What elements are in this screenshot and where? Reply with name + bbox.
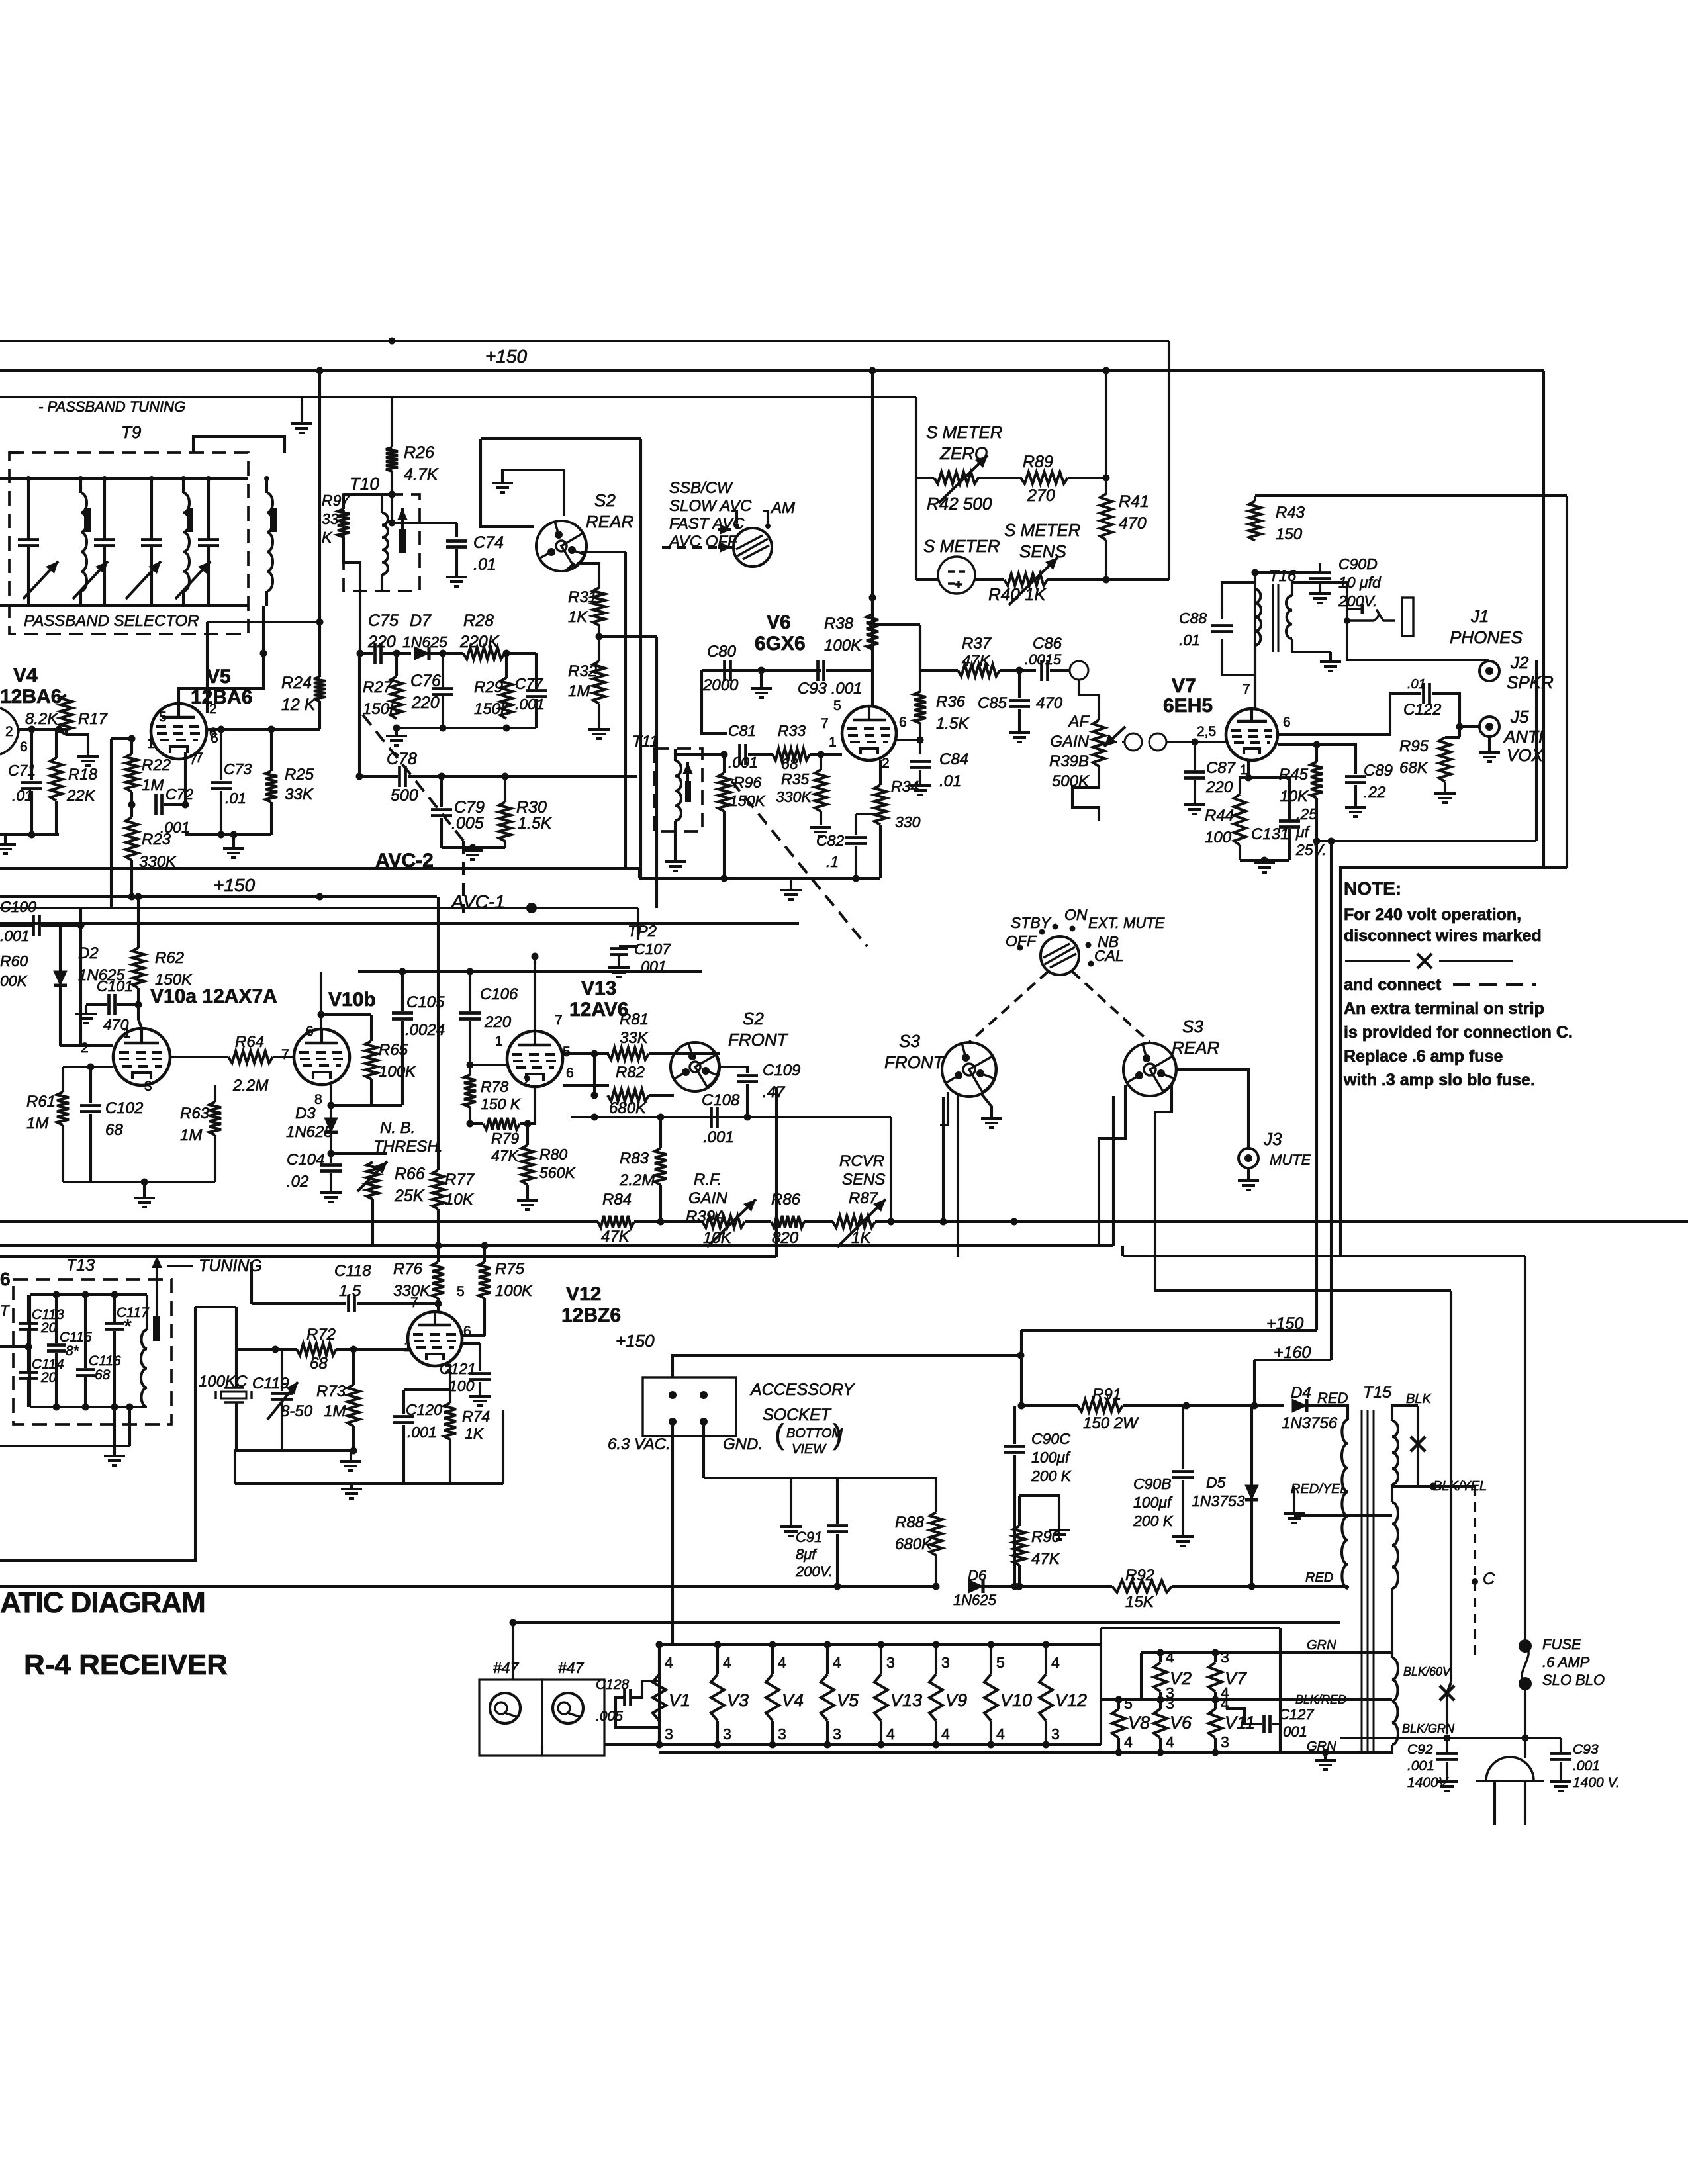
ground T16 <box>1320 662 1341 671</box>
shield box T13 <box>13 1279 171 1424</box>
capacitor C80 <box>725 660 731 681</box>
wire <box>674 1052 720 1055</box>
svg-text:R41: R41 <box>1119 492 1149 511</box>
wire long bus 1882 <box>0 1244 1113 1247</box>
ground R73 <box>340 1461 361 1471</box>
wire <box>59 923 62 971</box>
ground below R32 <box>588 729 610 739</box>
wire <box>1194 780 1196 803</box>
wire heater V13 top <box>880 1645 882 1674</box>
svg-text:150 2W: 150 2W <box>1083 1414 1139 1432</box>
wire AVC to V5 grid <box>111 737 132 740</box>
svg-text:R42 500: R42 500 <box>927 494 992 514</box>
ground below C79 <box>462 850 483 860</box>
wire GRN bottom row <box>659 1751 1340 1754</box>
dashed link to S3 front <box>969 972 1048 1042</box>
svg-text:220: 220 <box>484 1013 512 1031</box>
wire <box>1123 1255 1525 1257</box>
svg-text:R83: R83 <box>620 1150 649 1167</box>
wire <box>336 1348 410 1351</box>
wire <box>128 1407 131 1446</box>
junction <box>869 594 876 602</box>
svg-text:560K: 560K <box>539 1164 576 1181</box>
tube V13 12AV6 <box>507 1031 563 1087</box>
resistor R31 <box>593 588 605 625</box>
junction <box>1313 741 1321 749</box>
resistor R88 <box>930 1512 942 1555</box>
wire S2 contact right <box>581 551 626 553</box>
svg-text:6: 6 <box>306 1024 314 1039</box>
wire right side of S-meter box <box>1168 341 1170 580</box>
resistor R44 <box>1234 794 1246 845</box>
dashed wire to AVC switch <box>662 546 733 549</box>
svg-text:and connect: and connect <box>1344 976 1442 994</box>
wire V13 pin5 <box>570 1052 609 1055</box>
resistor R29 <box>500 678 512 719</box>
svg-text:C85: C85 <box>978 694 1008 712</box>
wire <box>236 1348 297 1351</box>
svg-text:R-4 RECEIVER: R-4 RECEIVER <box>24 1649 228 1681</box>
fuse F1 <box>1519 1639 1532 1653</box>
svg-text:68: 68 <box>310 1355 328 1373</box>
ground V7 cathode <box>1254 863 1275 872</box>
wire heater V1 top <box>658 1645 661 1674</box>
wire to V10a grid <box>138 1005 142 1028</box>
junction <box>218 726 225 733</box>
svg-text:N. B.: N. B. <box>380 1119 415 1137</box>
ground below R27 <box>386 736 407 745</box>
junction <box>591 1050 598 1058</box>
wire <box>0 924 32 927</box>
junction <box>1103 576 1110 584</box>
wire <box>890 1117 892 1222</box>
svg-text:.001: .001 <box>1407 1758 1434 1774</box>
wire input <box>0 1345 28 1348</box>
svg-text:00K: 00K <box>0 972 28 989</box>
dashed divider vertical <box>462 841 465 913</box>
terminal circle <box>1070 661 1088 680</box>
connection X mark <box>1411 1437 1425 1451</box>
wire <box>820 811 822 825</box>
svg-text:3: 3 <box>1166 1695 1174 1712</box>
svg-text:C73: C73 <box>224 760 252 778</box>
capacitor C107 <box>610 949 628 955</box>
wire to R26 <box>391 397 393 447</box>
wire <box>856 813 880 815</box>
svg-text:S2: S2 <box>594 490 616 510</box>
svg-text:SENS: SENS <box>842 1171 885 1189</box>
wire R24 bottom <box>318 701 321 729</box>
wire <box>659 1117 662 1148</box>
wire <box>359 775 398 778</box>
wire <box>442 653 444 688</box>
junction C87 tap <box>1192 739 1199 746</box>
ground near T9 <box>291 424 312 433</box>
wire <box>55 1353 58 1407</box>
wire <box>232 835 235 848</box>
svg-text:EXT. MUTE: EXT. MUTE <box>1088 915 1165 931</box>
shield box T10 <box>344 494 420 591</box>
svg-text:4: 4 <box>665 1654 673 1671</box>
svg-text:47K: 47K <box>601 1228 630 1246</box>
resistor R36 <box>914 692 926 723</box>
ground C104 <box>320 1193 342 1202</box>
ground R35 <box>810 827 831 837</box>
capacitor C82 <box>845 838 867 844</box>
wire GRN top <box>1340 1653 1392 1658</box>
junction <box>510 1619 517 1627</box>
wire V10b plate <box>320 972 322 1030</box>
wire <box>919 625 921 670</box>
wire <box>350 1484 353 1489</box>
tube V10a <box>113 1028 170 1085</box>
switch position dot <box>1017 945 1023 951</box>
junction <box>350 1346 357 1353</box>
junction <box>824 1741 831 1749</box>
wire to C73 <box>220 729 222 780</box>
wire <box>85 1005 87 1013</box>
wire to TP2 <box>637 908 639 940</box>
svg-text:REAR: REAR <box>1172 1038 1219 1058</box>
wire <box>273 1056 294 1058</box>
junction <box>878 1641 885 1649</box>
svg-text:V4: V4 <box>782 1690 804 1710</box>
jack J2 SPKR <box>1479 661 1499 681</box>
svg-text:AF: AF <box>1067 713 1090 731</box>
wire <box>1288 829 1291 860</box>
wire RED/YEL <box>1293 1486 1295 1512</box>
wire <box>392 522 420 524</box>
wire S3 to J3 <box>1176 1069 1248 1148</box>
junction <box>389 491 396 498</box>
wire plug leg R <box>1524 1781 1526 1825</box>
wire <box>442 846 505 849</box>
svg-text:330: 330 <box>895 813 921 831</box>
ground above S2 <box>492 483 513 492</box>
resistor R41 <box>1100 494 1112 540</box>
svg-text:7: 7 <box>821 716 829 731</box>
wire S2 upper contact feed <box>639 439 642 878</box>
capacitor C118 <box>349 1295 355 1312</box>
wire <box>113 1295 116 1322</box>
wire <box>130 792 133 817</box>
wire S-meter box left side <box>915 397 917 580</box>
svg-text:BLK: BLK <box>1406 1392 1432 1406</box>
junction T9 bus <box>264 476 269 481</box>
junction <box>656 1741 663 1749</box>
tuning slug <box>270 508 277 532</box>
svg-text:100K: 100K <box>495 1282 533 1300</box>
svg-text:47K: 47K <box>1031 1550 1060 1568</box>
junction <box>1328 838 1335 845</box>
wire <box>79 925 82 1046</box>
capacitor C93 <box>818 660 824 681</box>
wire <box>220 791 222 835</box>
resistor R43 <box>1249 501 1261 541</box>
capacitor C91 <box>827 1526 848 1532</box>
wire <box>1272 1724 1280 1752</box>
svg-text:V13: V13 <box>581 978 616 999</box>
resistor <box>1004 574 1047 586</box>
junction <box>126 1404 134 1411</box>
svg-text:C75: C75 <box>368 612 399 630</box>
trimmer arrow <box>175 561 211 599</box>
trimmer arrow <box>126 561 161 599</box>
wire V12 box bottom <box>235 1482 503 1485</box>
ground TP2 <box>608 968 630 977</box>
wire R89 to R41 node <box>1068 477 1106 479</box>
ground C93 <box>1550 1782 1571 1791</box>
switch position dot <box>1088 961 1094 967</box>
wire <box>1253 1360 1256 1406</box>
inductor T15 secondary LV <box>1392 1658 1398 1745</box>
wire <box>649 1094 674 1097</box>
svg-text:R17: R17 <box>78 710 109 728</box>
svg-text:7: 7 <box>189 752 197 768</box>
wire R97 to C75 <box>344 537 360 653</box>
wire <box>1445 736 1460 739</box>
junction <box>1011 1218 1018 1226</box>
wire <box>455 549 458 576</box>
junction <box>440 725 447 732</box>
wire V6 plate <box>871 598 874 706</box>
junction <box>435 1242 442 1250</box>
svg-text:20: 20 <box>40 1370 57 1385</box>
wire <box>1254 645 1256 709</box>
svg-text:C127: C127 <box>1279 1706 1314 1723</box>
wire plug leg L <box>1493 1781 1496 1825</box>
svg-text:.01: .01 <box>12 787 33 804</box>
junction <box>399 968 406 976</box>
wire <box>659 1185 662 1222</box>
wire <box>252 1302 346 1305</box>
svg-text:FRONT: FRONT <box>728 1030 789 1050</box>
wire <box>30 791 33 835</box>
svg-text:J3: J3 <box>1263 1129 1282 1149</box>
wire <box>790 1478 792 1512</box>
wire <box>775 1087 778 1257</box>
capacitor C102 <box>80 1106 101 1112</box>
wire <box>1488 737 1491 751</box>
svg-text:C77: C77 <box>515 675 543 692</box>
capacitor C90B <box>1172 1472 1194 1478</box>
terminal circle <box>1149 733 1166 751</box>
ground V10 cathodes <box>134 1198 155 1207</box>
wire <box>449 1366 451 1403</box>
resistor R76 <box>432 1262 444 1298</box>
wire <box>1123 1404 1284 1407</box>
junction <box>769 1641 776 1649</box>
junction <box>1103 475 1110 482</box>
wire <box>1444 782 1446 792</box>
wire T13 bottom <box>30 1406 147 1408</box>
junction <box>1472 1578 1478 1585</box>
switch S3 rear <box>1123 1043 1176 1096</box>
junction <box>769 1741 776 1749</box>
wire <box>935 1555 937 1586</box>
svg-text:C108: C108 <box>702 1091 740 1109</box>
junction <box>1115 1749 1123 1756</box>
svg-text:3: 3 <box>1221 1649 1229 1666</box>
tube V7 6EH5 <box>1226 709 1278 760</box>
svg-text:150K: 150K <box>363 700 400 718</box>
wire <box>563 1084 609 1087</box>
svg-text:1M: 1M <box>26 1115 48 1132</box>
svg-text:SLOW AVC: SLOW AVC <box>669 497 752 515</box>
resistor R82 <box>608 1089 649 1101</box>
wire <box>117 1003 138 1006</box>
svg-text:μf: μf <box>1295 823 1311 841</box>
resistor R61 <box>57 1092 69 1125</box>
resistor R75 <box>479 1262 491 1298</box>
junction <box>1313 838 1321 845</box>
wire <box>236 1449 353 1452</box>
svg-text:1N625: 1N625 <box>286 1123 333 1141</box>
ground S3 front <box>981 1118 1002 1128</box>
svg-text:5: 5 <box>1124 1695 1133 1712</box>
wire plug base <box>1476 1780 1544 1782</box>
wire heater V7 <box>1214 1653 1217 1662</box>
ground V6 bottom <box>780 890 802 899</box>
wire <box>1447 1737 1561 1739</box>
svg-text:22K: 22K <box>66 787 96 805</box>
trimmer arrow <box>73 561 108 599</box>
svg-text:GRN: GRN <box>1307 1638 1336 1653</box>
accessory socket <box>643 1377 736 1436</box>
wire <box>1019 1585 1112 1588</box>
wire slow avc tick <box>731 511 737 523</box>
junction <box>1016 1583 1023 1590</box>
wire <box>1324 1752 1327 1760</box>
wire fuse bottom <box>1524 1684 1526 1738</box>
resistor R26 <box>386 447 398 471</box>
svg-text:470: 470 <box>1119 514 1147 533</box>
svg-text:PASSBAND SELECTOR: PASSBAND SELECTOR <box>24 612 199 630</box>
junction <box>1456 723 1464 731</box>
svg-text:2: 2 <box>209 702 217 717</box>
svg-text:680K: 680K <box>895 1535 933 1553</box>
heater V5 <box>821 1674 834 1721</box>
ground V5 <box>223 848 244 858</box>
capacitor C131 <box>1279 821 1300 827</box>
ground R95 <box>1434 794 1456 803</box>
wire <box>469 1107 471 1124</box>
shield box T9 <box>9 453 248 634</box>
svg-text:ON: ON <box>1064 906 1088 923</box>
capacitor C122 <box>1424 683 1430 704</box>
wire <box>1018 709 1021 731</box>
junction <box>503 725 510 732</box>
wire <box>130 739 133 754</box>
ground C87 <box>1184 805 1205 814</box>
svg-text:R28: R28 <box>463 612 494 630</box>
svg-text:S METER: S METER <box>923 536 1000 556</box>
svg-text:10 μfd: 10 μfd <box>1338 574 1382 591</box>
svg-text:GND.: GND. <box>723 1435 763 1453</box>
heater V11 <box>1209 1709 1222 1738</box>
svg-text:S METER: S METER <box>1004 520 1081 540</box>
svg-text:TP2: TP2 <box>628 923 657 940</box>
wire V4 bottom <box>0 833 59 836</box>
svg-text:S2: S2 <box>743 1009 764 1028</box>
wire <box>638 868 641 878</box>
junction <box>714 1741 722 1749</box>
wire S2 left feed box <box>481 439 534 527</box>
lamp box 2 <box>542 1680 604 1756</box>
junction <box>56 726 63 733</box>
wire <box>86 1003 107 1006</box>
wire V5 screen <box>207 621 320 623</box>
capacitor C77 <box>526 691 547 697</box>
svg-text:GAIN: GAIN <box>688 1189 727 1207</box>
wire +150 to accessory <box>673 1355 1021 1377</box>
svg-text:2: 2 <box>523 1073 531 1089</box>
svg-text:C93 .001: C93 .001 <box>798 680 862 698</box>
svg-text:PHONES: PHONES <box>1450 627 1523 647</box>
wire V5 bottom <box>185 833 271 836</box>
capacitor C100 <box>34 915 40 936</box>
wire <box>1240 859 1289 862</box>
heater V8 <box>1112 1709 1125 1738</box>
wire <box>1013 1406 1016 1444</box>
wire <box>502 1410 504 1484</box>
svg-text:.01: .01 <box>939 772 961 790</box>
wire C106 top <box>469 972 471 1011</box>
wire R36 top <box>919 625 921 692</box>
resistor R97 <box>338 509 350 537</box>
wire <box>1182 1480 1184 1535</box>
wire <box>983 1585 1019 1588</box>
svg-text:C101: C101 <box>97 978 133 995</box>
svg-text:C87: C87 <box>1206 759 1237 777</box>
svg-text:R39B: R39B <box>1049 752 1089 770</box>
wire S2 to R31 <box>577 563 599 588</box>
wire <box>137 988 140 1005</box>
svg-text:R89: R89 <box>1023 453 1053 471</box>
wire <box>1391 1484 1393 1486</box>
diode D5 <box>1245 1485 1258 1500</box>
capacitor C109 <box>737 1076 758 1082</box>
resistor R84 <box>598 1216 634 1228</box>
wire tuning dash <box>167 1265 193 1267</box>
wire V6 box bottom <box>639 877 880 880</box>
wire <box>804 1220 833 1223</box>
svg-text:7: 7 <box>555 1013 563 1028</box>
junction <box>744 1114 751 1121</box>
junction <box>657 1114 665 1121</box>
junction <box>714 1641 722 1649</box>
svg-text:R39A: R39A <box>686 1208 726 1226</box>
wire <box>358 653 361 776</box>
junction T9 bus <box>78 476 83 481</box>
svg-text:5: 5 <box>159 709 167 725</box>
capacitor T9 trimmer 1 <box>18 540 39 546</box>
wire <box>195 1306 236 1308</box>
resistor R27 <box>391 676 402 719</box>
svg-text:1: 1 <box>495 1034 503 1049</box>
svg-text:68K: 68K <box>1399 759 1429 777</box>
wire <box>55 729 58 758</box>
wire <box>1263 860 1266 863</box>
wire +150 ps <box>1021 1329 1317 1332</box>
capacitor C121 <box>469 1374 491 1380</box>
ground R17 <box>77 756 99 766</box>
svg-text:R79: R79 <box>491 1130 519 1147</box>
wire <box>62 1125 64 1182</box>
junction <box>1212 1649 1219 1657</box>
wire <box>1014 1220 1688 1223</box>
wire T16 sec top <box>1292 582 1347 609</box>
